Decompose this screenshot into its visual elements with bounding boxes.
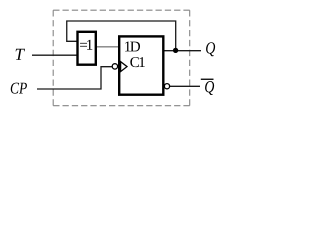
node Q label bbox=[206, 42, 215, 56]
wire XOR output to 1D input bbox=[97, 46, 120, 48]
wire feedback from Q to XOR input bbox=[67, 21, 176, 50]
xor gate U1 (=1 box) bbox=[78, 32, 96, 65]
wire Q-bar output bbox=[170, 85, 200, 87]
wire T input bbox=[32, 54, 77, 56]
dashed enclosure box bbox=[53, 10, 190, 106]
wire Q output bbox=[164, 50, 201, 52]
pin label 1D bbox=[125, 42, 140, 52]
flip-flop U2 (D flip-flop box) bbox=[119, 36, 163, 94]
pin label C1 bbox=[130, 57, 144, 67]
node CP label bbox=[11, 83, 27, 94]
label =1 bbox=[80, 40, 92, 50]
wire CP input bbox=[37, 67, 112, 89]
junction dot on Q net bbox=[173, 48, 178, 53]
node T label bbox=[16, 49, 25, 60]
node Q-bar label bbox=[205, 81, 214, 95]
clock dynamic indicator triangle bbox=[121, 62, 127, 72]
clock inversion bubble bbox=[112, 64, 117, 69]
Q-bar inversion bubble bbox=[164, 84, 169, 89]
overline of Q-bar bbox=[201, 79, 214, 80]
